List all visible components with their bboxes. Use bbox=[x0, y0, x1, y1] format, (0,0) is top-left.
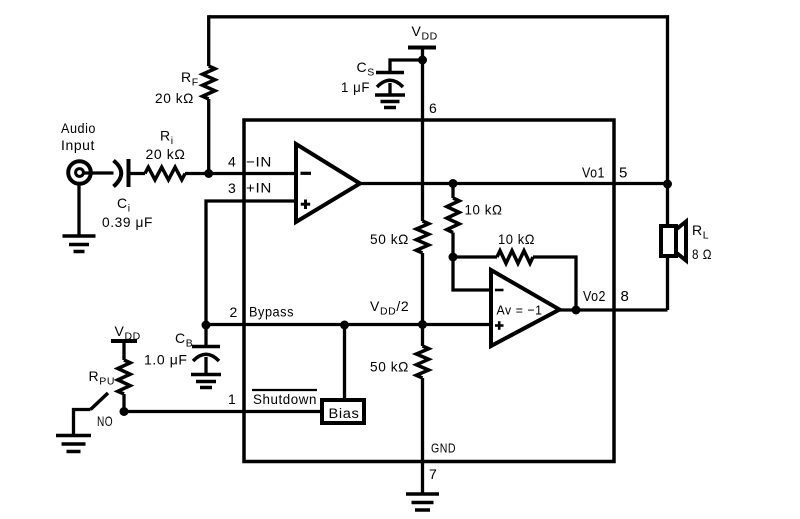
capacitor CB bbox=[204, 325, 207, 347]
wire bypass / VDD/2 to op-amp U2 +IN bbox=[206, 323, 491, 326]
wire jack to Ci bbox=[84, 171, 114, 174]
svg-text:Bypass: Bypass bbox=[249, 304, 294, 320]
node bypass/CB bbox=[202, 321, 211, 330]
svg-text:NO: NO bbox=[97, 413, 113, 429]
wire 10k R1 top stub bbox=[451, 184, 454, 199]
switch arm bbox=[91, 393, 109, 410]
resistor 10k R2 bbox=[497, 251, 533, 264]
wire CB to ground bbox=[204, 357, 207, 375]
resistor 50k upper bbox=[416, 221, 428, 253]
svg-text:8: 8 bbox=[621, 288, 630, 305]
node Vo2 bbox=[572, 306, 581, 315]
ground (pin 7) bbox=[406, 494, 439, 510]
svg-text:50 kΩ: 50 kΩ bbox=[370, 359, 409, 375]
svg-text:Input: Input bbox=[61, 137, 95, 153]
wire CS branch bbox=[390, 60, 423, 73]
wire shutdown pin 1 bbox=[124, 410, 322, 413]
wire 50k lower to GND pin 7 bbox=[421, 378, 424, 494]
wire op-amp U1 output Vo1 bbox=[360, 182, 668, 185]
op-amp U2 bbox=[491, 270, 560, 346]
overline of Shutdown bbox=[252, 389, 317, 391]
svg-text:8 Ω: 8 Ω bbox=[692, 246, 712, 262]
svg-text:5: 5 bbox=[619, 165, 628, 182]
svg-text:Av = −1: Av = −1 bbox=[497, 303, 543, 318]
ground (CS) bbox=[375, 95, 405, 108]
node bias branch bbox=[340, 321, 349, 330]
svg-text:Audio: Audio bbox=[61, 120, 96, 136]
capacitor CS bbox=[376, 73, 404, 88]
svg-text:Vo1: Vo1 bbox=[582, 165, 605, 182]
op-amp U1 minus sign bbox=[301, 172, 312, 175]
switch pole wire bbox=[74, 410, 91, 436]
resistor Ri bbox=[145, 167, 185, 180]
svg-text:1: 1 bbox=[228, 391, 236, 407]
ground (switch) bbox=[56, 436, 91, 452]
svg-text:50 kΩ: 50 kΩ bbox=[370, 231, 409, 247]
IC boundary box bbox=[244, 120, 614, 462]
wire op-amp U2 output Vo2 bbox=[560, 308, 668, 311]
wire jack ground stub bbox=[77, 185, 80, 237]
wire rail to speaker top bbox=[666, 184, 669, 227]
resistor 50k lower bbox=[416, 346, 428, 378]
wire VDD to RPU bbox=[122, 341, 125, 360]
node VDD/2 bbox=[418, 320, 427, 329]
svg-text:20 kΩ: 20 kΩ bbox=[155, 90, 194, 106]
svg-text:2: 2 bbox=[230, 304, 238, 320]
speaker RL bbox=[661, 222, 686, 261]
wire 10k R2 left stub bbox=[453, 255, 497, 258]
wire RF top stub bbox=[207, 15, 210, 66]
svg-text:−IN: −IN bbox=[246, 153, 272, 169]
op-amp U2 minus sign bbox=[495, 289, 504, 292]
wire +IN from op-amp U1 down to bypass node bbox=[206, 201, 296, 325]
svg-text:6: 6 bbox=[429, 100, 437, 116]
svg-text:7: 7 bbox=[429, 466, 437, 482]
svg-text:Vo2: Vo2 bbox=[583, 288, 606, 305]
wire bias to VDD/2 node bbox=[343, 325, 346, 400]
wire Ri to op-amp U1 -IN bbox=[185, 172, 296, 175]
svg-text:1.0 μF: 1.0 μF bbox=[144, 352, 188, 368]
svg-text:Shutdown: Shutdown bbox=[253, 391, 317, 407]
node Vo1 rail bbox=[663, 180, 672, 189]
svg-text:1 μF: 1 μF bbox=[341, 79, 370, 95]
svg-text:4: 4 bbox=[228, 153, 236, 169]
wire VDD rail vertical (pin 6) bbox=[421, 48, 424, 222]
op-amp U1 plus sign bbox=[301, 200, 310, 210]
svg-text:+IN: +IN bbox=[246, 180, 272, 196]
svg-text:0.39 μF: 0.39 μF bbox=[102, 214, 153, 230]
wire node to op-amp U2 -IN bbox=[453, 257, 491, 290]
op-amp U2 plus sign bbox=[495, 321, 504, 330]
Bias box bbox=[322, 400, 364, 423]
svg-text:20 kΩ: 20 kΩ bbox=[146, 146, 186, 162]
wire 10k R2 right to Vo2 node bbox=[533, 257, 576, 310]
op-amp U1 bbox=[296, 144, 360, 222]
wire RF bottom stub bbox=[207, 99, 210, 173]
svg-text:Bias: Bias bbox=[329, 405, 360, 421]
svg-text:10 kΩ: 10 kΩ bbox=[498, 231, 535, 247]
resistor 10k R1 bbox=[447, 198, 459, 233]
node input junction (RF/Ri/-IN) bbox=[204, 169, 213, 178]
wire CS to ground bbox=[388, 83, 391, 95]
capacitor Ci bbox=[114, 159, 129, 187]
node 10k junction at U2 -IN bbox=[449, 253, 458, 262]
power VDD symbol top bbox=[408, 46, 436, 50]
ground (audio input) bbox=[63, 236, 96, 252]
wire speaker bottom to Vo2 wire bbox=[666, 256, 669, 310]
node NO (shutdown) bbox=[120, 407, 129, 416]
svg-text:GND: GND bbox=[431, 441, 456, 456]
svg-text:10 kΩ: 10 kΩ bbox=[465, 202, 503, 218]
wire 50k upper to VDD/2 node bbox=[421, 253, 424, 346]
ground (CB) bbox=[191, 375, 221, 388]
wire Ci to Ri bbox=[129, 172, 146, 175]
node 10k R1 top on Vo1 bbox=[449, 179, 458, 188]
wire RPU to NO node bbox=[122, 394, 125, 412]
wire 10k R1 bottom stub bbox=[451, 233, 454, 258]
connector audio input jack bbox=[68, 161, 91, 184]
svg-text:3: 3 bbox=[228, 180, 236, 196]
wire top feedback rail bbox=[209, 17, 668, 184]
power VDD symbol at RPU bbox=[111, 339, 137, 343]
node VDD/CS bbox=[418, 56, 427, 65]
resistor RF bbox=[203, 66, 215, 99]
resistor RPU bbox=[118, 360, 130, 394]
